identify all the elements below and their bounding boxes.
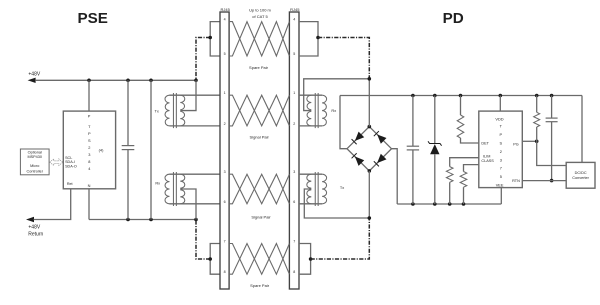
- wire PG pin line: [522, 140, 536, 142]
- resistor R1 to DET: [461, 138, 479, 143]
- svg-text:8: 8: [224, 270, 226, 274]
- svg-text:3: 3: [500, 157, 502, 162]
- node +48V arrow: [28, 78, 36, 83]
- capacitor C3 bottom lead: [551, 122, 553, 181]
- svg-text:Spare Pair: Spare Pair: [249, 65, 269, 70]
- wire T2 bottom to pin6: [170, 203, 221, 205]
- wire pins4-5 bracket right: [299, 22, 318, 56]
- wire +48V rail: [35, 79, 196, 81]
- svg-text:VDD: VDD: [495, 116, 503, 121]
- junction VDD rail: [433, 94, 437, 98]
- svg-text:Signal Pair: Signal Pair: [251, 214, 271, 219]
- node I2C double arrow: [50, 159, 63, 166]
- svg-text:S: S: [499, 141, 502, 146]
- svg-text:1: 1: [293, 91, 295, 95]
- capacitor C1 top lead: [127, 80, 129, 145]
- wire T1 bottom to pin2: [170, 125, 221, 127]
- svg-text:+48V: +48V: [28, 225, 40, 231]
- svg-text:2: 2: [224, 122, 226, 126]
- junction AC top node: [368, 77, 372, 81]
- junction +48V/P: [87, 79, 91, 83]
- svg-text:2: 2: [88, 145, 90, 150]
- resistor R4 top lead: [536, 96, 538, 113]
- wire spare feed bottom (dash-dot): [196, 220, 210, 260]
- svg-text:7: 7: [293, 240, 295, 244]
- svg-text:Signal Pair: Signal Pair: [250, 135, 270, 140]
- wire T2 center tap: [180, 189, 196, 220]
- junction VDD rail: [411, 94, 415, 98]
- wire RTN line: [522, 180, 566, 182]
- wire N pin drop: [88, 189, 90, 220]
- connector J2 RJ45 right: [289, 12, 299, 289]
- resistor R2 body: [446, 167, 453, 183]
- svg-text:5: 5: [293, 52, 295, 56]
- junction +48V/tap: [194, 79, 198, 83]
- junction bracket78 right: [309, 257, 313, 261]
- svg-text:2: 2: [500, 149, 502, 154]
- svg-text:DET: DET: [481, 142, 489, 146]
- resistor R2 lead from ILIM: [450, 158, 479, 167]
- wire bridge - to VEE rail: [392, 149, 398, 204]
- junction C3/RTN: [550, 179, 554, 183]
- junction +48V/wire: [149, 79, 153, 83]
- svg-text:8: 8: [293, 270, 295, 274]
- zener D5 cathode bar: [428, 141, 442, 145]
- transformer T1 Tx: [165, 95, 170, 126]
- zener D5 triangle: [430, 144, 439, 154]
- svg-text:RTN: RTN: [512, 179, 520, 183]
- resistor R1 body: [457, 115, 464, 138]
- svg-text:1: 1: [224, 91, 226, 95]
- capacitor C2 plates: [407, 145, 419, 147]
- svg-text:7: 7: [500, 166, 502, 171]
- svg-text:ILIM: ILIM: [483, 155, 490, 159]
- wire bridge top to AC: [368, 79, 370, 127]
- svg-text:PD: PD: [443, 10, 464, 27]
- svg-text:Ret: Ret: [67, 182, 73, 186]
- resistor R3 lead from CLASS: [464, 165, 479, 172]
- junction bracket78 left: [208, 257, 212, 261]
- wire spare feed top right (dash-dot): [318, 38, 369, 79]
- wire supply link: [150, 80, 152, 219]
- capacitor C1 bottom lead: [127, 150, 129, 220]
- svg-text:4: 4: [293, 18, 295, 22]
- connector J1 RJ45 left: [220, 12, 229, 289]
- transformer T3 Rx (PD): [307, 95, 312, 126]
- svg-text:3: 3: [88, 152, 90, 157]
- op-amp U3 TPS2375 box: [479, 111, 523, 188]
- svg-text:Optional: Optional: [28, 151, 42, 155]
- svg-text:(4): (4): [99, 148, 104, 153]
- svg-text:6: 6: [224, 200, 226, 204]
- wire VEE pin stub: [500, 188, 502, 204]
- junction VEE rail: [462, 202, 466, 206]
- wire VEE rail: [397, 203, 501, 205]
- svg-text:DC/DC: DC/DC: [575, 171, 587, 175]
- wire spare feed bottom right (dash-dot): [311, 218, 370, 259]
- junction bridge top: [368, 125, 372, 129]
- wire T4 center tap: [304, 189, 369, 218]
- svg-text:of CAT 5: of CAT 5: [252, 14, 268, 19]
- resistor R2 bottom lead: [449, 182, 451, 204]
- junction VDD rail: [459, 94, 463, 98]
- wire spare feed top (dash-dot): [196, 38, 210, 81]
- resistor R4 body: [534, 112, 540, 127]
- diode D4 bridge SE: [377, 154, 386, 163]
- resistor R1 top lead: [460, 96, 462, 116]
- svg-text:Spare Pair: Spare Pair: [250, 283, 270, 288]
- svg-text:MSP430: MSP430: [27, 155, 42, 159]
- junction VEE rail: [448, 202, 452, 206]
- resistor R4 bottom lead: [536, 127, 538, 141]
- svg-text:4: 4: [224, 18, 226, 22]
- wire pins4-5 bracket left: [210, 22, 220, 56]
- resistor R3 bottom lead: [463, 187, 465, 204]
- transformer T2 Rx: [165, 174, 170, 204]
- wire T4 bottom to pin6: [299, 203, 322, 205]
- wire T3 top to pin1: [299, 94, 322, 96]
- transformer T4 Tx (PD): [307, 174, 312, 204]
- capacitor C2 bottom lead: [412, 150, 414, 204]
- capacitor C3 plates: [546, 117, 558, 119]
- svg-text:PSE: PSE: [78, 10, 108, 27]
- wire bridge + to VDD rail: [340, 96, 347, 149]
- svg-text:3: 3: [293, 170, 295, 174]
- svg-text:Rx: Rx: [155, 180, 160, 185]
- wire twisted pair 1-2: [229, 95, 289, 126]
- svg-text:Tx: Tx: [155, 109, 159, 114]
- svg-text:PG: PG: [513, 142, 519, 146]
- wire VDD pin stub: [499, 96, 501, 112]
- svg-text:SDA-O: SDA-O: [65, 165, 77, 169]
- svg-text:P: P: [88, 114, 91, 119]
- junction bracket45 right: [316, 36, 320, 40]
- wire twisted pair 3-6: [229, 174, 289, 204]
- svg-text:P: P: [499, 132, 502, 137]
- wire VDD rail: [340, 95, 582, 97]
- junction VDD rail: [550, 94, 554, 98]
- svg-text:Controller: Controller: [27, 169, 44, 173]
- svg-text:Rx: Rx: [331, 108, 336, 113]
- diode D2 bridge SW: [355, 157, 364, 166]
- svg-text:SDA-I: SDA-I: [65, 160, 75, 164]
- op-amp U2 MSP430 box: [20, 149, 49, 175]
- svg-text:7: 7: [224, 240, 226, 244]
- junction VDD rail: [535, 94, 539, 98]
- svg-text:VEE: VEE: [496, 182, 504, 187]
- svg-text:N: N: [88, 183, 91, 188]
- wire T3 center tap: [304, 79, 370, 111]
- junction +48V/C1: [126, 79, 130, 83]
- node return arrow: [26, 217, 34, 222]
- op-amp U1 TPS2384 box: [63, 111, 115, 189]
- wire pins7-8 bracket left: [210, 244, 220, 275]
- svg-text:5: 5: [224, 52, 226, 56]
- junction VEE rail: [411, 202, 415, 206]
- capacitor C1 plates: [122, 145, 135, 147]
- capacitor C3 top lead: [551, 96, 553, 119]
- svg-text:SCL: SCL: [65, 156, 72, 160]
- svg-text:S: S: [88, 138, 91, 143]
- junction AC bottom node: [368, 216, 372, 220]
- resistor R3 body: [460, 172, 467, 188]
- diode D3 bridge NE: [377, 134, 386, 143]
- junction PG node: [535, 140, 539, 144]
- svg-text:Tx: Tx: [340, 185, 344, 190]
- wire T2 top to pin3: [170, 173, 221, 175]
- svg-text:Micro: Micro: [30, 164, 39, 168]
- svg-text:5: 5: [500, 174, 502, 179]
- wire T3 bottom to pin2: [299, 125, 322, 127]
- wire Ret to arrow: [34, 189, 71, 220]
- op-amp U4 DC/DC converter box: [566, 162, 595, 188]
- junction VEE rail: [433, 202, 437, 206]
- svg-text:Converter: Converter: [572, 176, 589, 180]
- zener D5 cathode lead: [434, 96, 436, 144]
- svg-text:P: P: [88, 131, 91, 136]
- wire bridge diamond: [347, 127, 392, 171]
- junction ret/C1: [126, 218, 130, 222]
- wire twisted pair 7-8: [229, 244, 289, 275]
- wire pins7-8 bracket right: [299, 244, 311, 275]
- junction bracket45 left: [208, 36, 212, 40]
- wire N return rail: [89, 219, 196, 221]
- wire T4 top to pin3: [299, 173, 322, 175]
- wire VDD to converter: [581, 96, 583, 163]
- junction bridge bottom: [368, 169, 372, 173]
- svg-text:+48V: +48V: [28, 71, 40, 77]
- svg-text:3: 3: [224, 170, 226, 174]
- junction VDD rail: [499, 94, 503, 98]
- wire twisted pair 4-5: [229, 22, 289, 56]
- svg-text:Return: Return: [28, 232, 43, 238]
- junction ret/wire: [149, 218, 153, 222]
- svg-text:2: 2: [293, 122, 295, 126]
- svg-text:Up to 100 m: Up to 100 m: [249, 7, 271, 12]
- diode D1 bridge NW: [355, 132, 364, 141]
- wire T1 top to pin1: [170, 94, 221, 96]
- svg-text:6: 6: [293, 200, 295, 204]
- capacitor C2 top lead: [412, 96, 414, 147]
- zener D5 anode lead: [434, 154, 436, 204]
- wire P pin stub: [88, 80, 90, 111]
- svg-text:CLASS: CLASS: [481, 159, 494, 163]
- svg-text:8: 8: [88, 159, 90, 164]
- wire bridge bottom to AC: [368, 171, 370, 218]
- wire PG to converter: [537, 141, 567, 165]
- wire T1 center tap: [180, 80, 196, 110]
- junction ret/tap: [194, 218, 198, 222]
